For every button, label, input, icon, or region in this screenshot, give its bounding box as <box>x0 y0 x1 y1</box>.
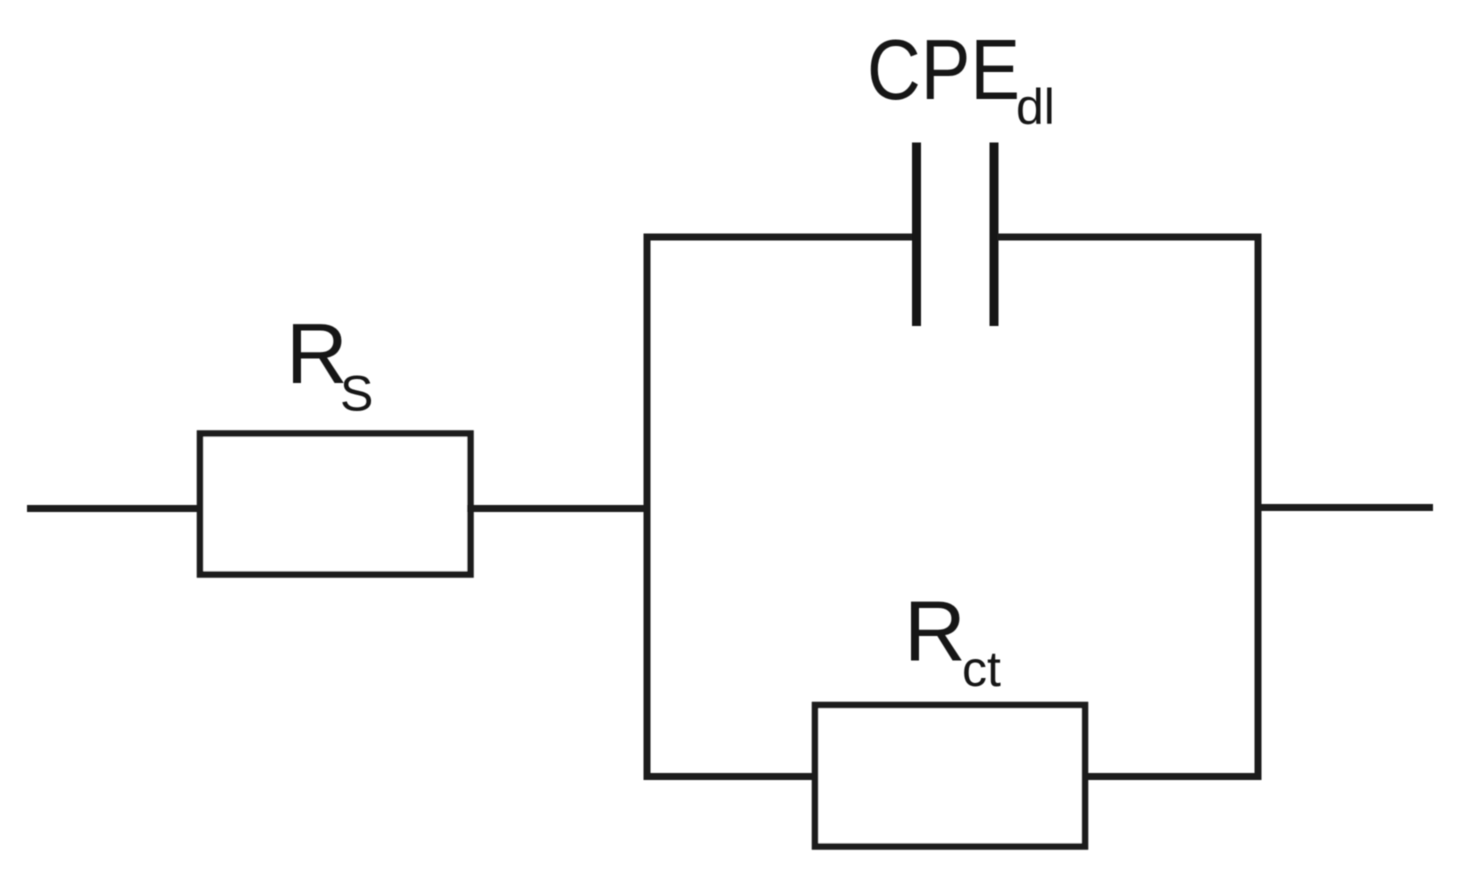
capacitor CPEdl left plate <box>912 143 921 327</box>
wire: right branch of parallel loop (CPE right plate to right node, down to Rct) <box>997 237 1258 777</box>
wire: left input lead <box>27 505 203 512</box>
svg-text:dl: dl <box>1016 79 1055 135</box>
wire: right output lead <box>1258 504 1433 511</box>
svg-text:R: R <box>904 585 966 680</box>
svg-text:R: R <box>286 307 348 402</box>
resistor RS (box) <box>200 434 471 575</box>
resistor Rct (box) <box>815 705 1085 847</box>
svg-text:ct: ct <box>962 641 1001 697</box>
wire: left branch of parallel loop (node A up and to CPE left plate, node down to Rct) <box>647 237 913 777</box>
svg-text:S: S <box>340 366 373 422</box>
capacitor CPEdl right plate <box>990 143 999 327</box>
svg-text:CPE: CPE <box>867 23 1020 118</box>
wire: RS to parallel node <box>467 505 647 512</box>
